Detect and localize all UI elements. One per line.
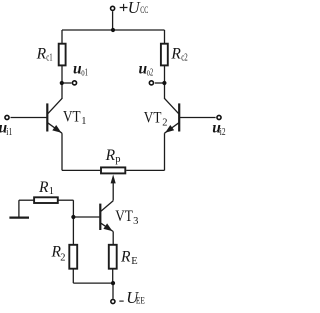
svg-text:2: 2 — [162, 118, 167, 129]
svg-text:c2: c2 — [181, 53, 188, 64]
svg-text:p: p — [115, 154, 120, 165]
svg-text:E: E — [131, 256, 137, 267]
svg-text:VT: VT — [115, 208, 133, 225]
svg-text:R: R — [120, 249, 131, 266]
svg-text:R: R — [105, 147, 116, 164]
svg-text:i1: i1 — [6, 127, 12, 138]
svg-text:c1: c1 — [46, 53, 52, 64]
svg-text:R: R — [170, 46, 181, 63]
svg-text:R: R — [36, 46, 47, 63]
svg-text:i2: i2 — [220, 127, 226, 138]
svg-text:EE: EE — [136, 297, 145, 307]
svg-text:o2: o2 — [147, 68, 153, 79]
svg-text:3: 3 — [133, 216, 138, 227]
svg-text:R: R — [38, 179, 49, 196]
svg-text:U: U — [128, 0, 141, 17]
svg-text:CC: CC — [140, 6, 148, 16]
svg-text:2: 2 — [60, 253, 65, 264]
svg-text:1: 1 — [81, 116, 86, 127]
svg-text:VT: VT — [144, 109, 162, 126]
svg-text:VT: VT — [63, 108, 81, 125]
svg-text:1: 1 — [49, 186, 54, 197]
svg-text:o1: o1 — [81, 68, 88, 79]
